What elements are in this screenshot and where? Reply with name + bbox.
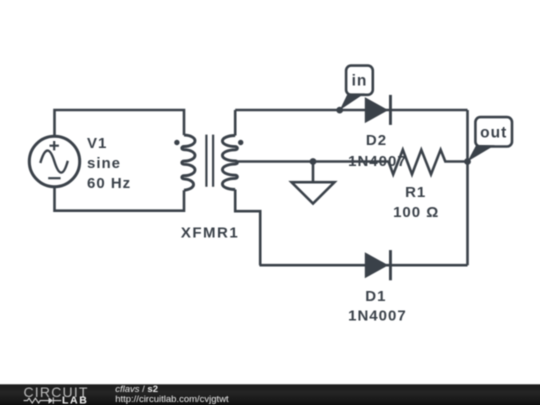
svg-text:D1: D1 — [365, 288, 386, 305]
svg-text:sine: sine — [87, 155, 121, 172]
svg-text:V1: V1 — [87, 135, 107, 152]
svg-text:100 Ω: 100 Ω — [393, 204, 439, 221]
svg-text:LAB: LAB — [62, 395, 88, 405]
svg-text:1N4007: 1N4007 — [348, 153, 407, 170]
svg-text:60 Hz: 60 Hz — [87, 175, 131, 192]
svg-text:out: out — [480, 125, 507, 142]
svg-text:R1: R1 — [405, 184, 426, 201]
svg-text:D2: D2 — [366, 132, 387, 149]
svg-text:in: in — [352, 73, 368, 90]
svg-text:http://circuitlab.com/cvjgtwt: http://circuitlab.com/cvjgtwt — [115, 394, 229, 405]
svg-text:1N4007: 1N4007 — [348, 308, 407, 325]
svg-text:XFMR1: XFMR1 — [181, 225, 239, 242]
